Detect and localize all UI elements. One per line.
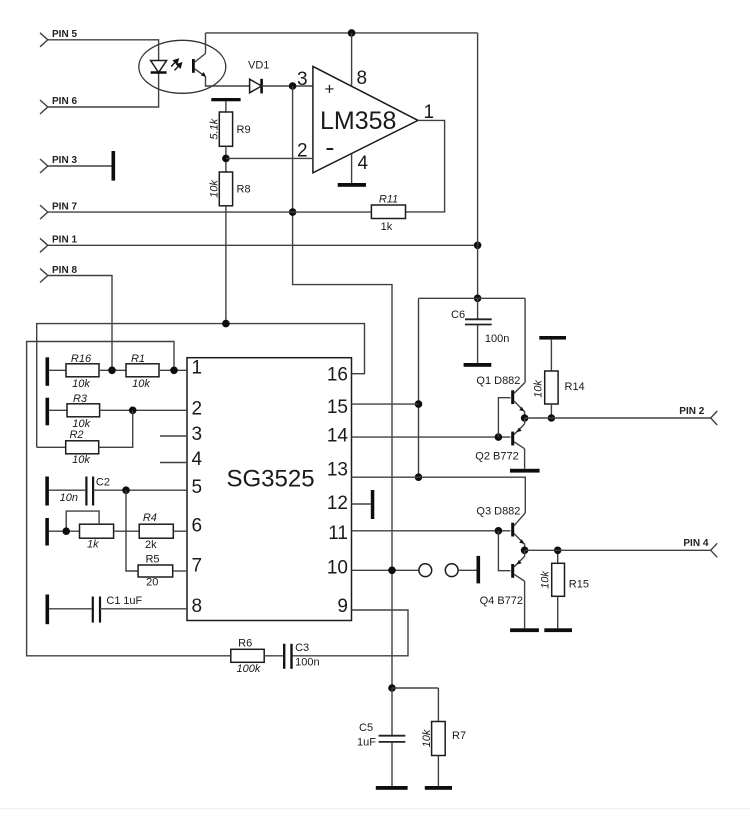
PIN 8 connector [40,265,77,283]
svg-text:1k: 1k [87,539,99,551]
terminal bar R3 [46,398,50,426]
phototransistor of optocoupler [192,54,206,78]
wire Q2 collector to ground [524,449,526,469]
svg-text:2: 2 [192,399,203,420]
wire PIN8 down to R16/R1 node [48,276,112,371]
resistor R14 [533,340,585,418]
node shutdown/C5/R7 [388,684,396,692]
wire supply vertical [477,33,479,298]
svg-text:1k: 1k [381,221,393,233]
node pot wiper [62,527,70,535]
wire PIN1 supply [48,244,478,246]
PIN 7 connector [40,201,77,219]
svg-text:R11: R11 [379,194,398,206]
wire R6 to C3 [264,655,284,657]
wire phototransistor emitter to VD1 [206,77,250,87]
LED of optocoupler [151,61,167,73]
transistor Q4 B772 [480,556,525,607]
svg-text:10k: 10k [209,180,221,198]
node R15/PIN4 [554,547,562,555]
ground Q4 [510,628,539,632]
svg-text:8: 8 [357,68,368,89]
capacitor C3 [284,642,319,669]
svg-text:R16: R16 [71,353,92,365]
wire base join up to Q1 base [498,398,510,437]
wire base join down to Q4 base [498,531,510,571]
resistor R15 [540,550,589,628]
wire PIN7 to R11 [48,211,372,213]
node R9/R8 to op-amp pin 2 [222,155,230,163]
node pin5/C2/R5 [122,486,130,494]
wire R9 to node R9/R8 [225,146,227,172]
PIN 2 connector [679,406,717,425]
ground C5 [376,786,408,790]
svg-text:4: 4 [358,153,369,174]
node base join [495,433,503,441]
resistor R1 [126,353,159,390]
wire vref rail (R8 bottom to pin16) [37,324,365,448]
svg-text:7: 7 [192,556,203,577]
svg-text:R14: R14 [565,381,585,393]
pin 15 wire [352,403,419,405]
op-amp U1 LM358 [297,66,434,174]
PIN 1 connector [40,235,77,253]
transistor Q3 D882 [476,506,525,545]
svg-text:C6: C6 [451,309,465,321]
wire node to R7 [392,687,438,689]
svg-text:10k: 10k [421,729,433,747]
svg-text:R4: R4 [143,512,157,524]
node top rail / op-amp pin 8 [348,29,356,37]
svg-text:3: 3 [192,424,203,445]
wire LED cathode to PIN6 [48,73,159,108]
pin 10 wire [352,569,419,571]
PIN 3 connector [40,155,77,173]
wire Q3 emitter to output node [523,543,524,550]
svg-text:SG3525: SG3525 [227,465,315,492]
jumper circle 2 [445,564,458,577]
node pin2/R3/R2 [129,407,137,415]
resistor R16 [49,353,99,390]
svg-text:R7: R7 [452,730,466,742]
ground Q2 [510,469,540,473]
PIN 4 connector [683,538,717,558]
svg-text:11: 11 [328,523,348,544]
wire R4 to pin 6 [173,530,187,532]
node base join 2 [495,527,503,535]
terminal bar C1 [46,595,50,625]
svg-text:PIN 8: PIN 8 [52,265,77,276]
wire Q2 emitter up to node [524,418,526,424]
resistor R7 [421,688,466,786]
svg-text:1uF: 1uF [357,737,376,749]
capacitor C2 [49,477,187,506]
terminal bar C2 [45,477,49,506]
capacitor C1 [49,595,187,623]
svg-text:R6: R6 [238,637,252,649]
svg-text:LM358: LM358 [320,107,396,135]
node Q1/Q2 emitters [521,414,529,422]
node PIN7 junction [289,208,297,216]
node Q3/Q4 emitters [521,547,529,555]
node pin3 junction [289,82,297,90]
svg-text:9: 9 [337,596,348,617]
capacitor C5 [357,688,405,786]
resistor R6 [231,637,264,675]
svg-text:C2: C2 [96,477,110,489]
svg-text:10k: 10k [540,571,552,589]
resistor R11 [371,194,405,234]
transistor Q2 B772 [475,424,524,463]
wire PIN 2 output [525,417,711,419]
wire circle2 to terminal [458,569,476,571]
PIN 6 connector [40,96,77,114]
svg-text:PIN 5: PIN 5 [52,29,77,40]
pin 4 stub [160,462,187,464]
bar above R14 [539,336,566,340]
svg-text:100n: 100n [295,657,319,669]
node VCC/pin15 [415,400,423,408]
ground C6 [464,363,492,367]
terminal bar pot [45,518,49,546]
wire VD1 to op-amp pin 3 [262,85,313,87]
svg-text:12: 12 [327,493,348,514]
resistor R3 [49,393,100,430]
svg-text:4: 4 [192,449,203,470]
wire R1 to pin 1 [159,369,187,371]
wire R16-R1 [99,369,126,371]
bar above R9 [211,98,240,101]
svg-text:13: 13 [327,460,348,481]
svg-text:Q3 D882: Q3 D882 [476,506,520,518]
terminal bar pin12 [371,490,375,519]
svg-text:10k: 10k [533,380,545,398]
svg-text:R2: R2 [69,429,83,441]
pin 11 wire to Q3/Q4 bases [352,530,511,532]
node R14/PIN2 [548,414,556,422]
wire C2 node down to R5 [126,490,138,571]
svg-text:C5: C5 [359,722,373,734]
svg-text:15: 15 [327,397,348,418]
svg-text:PIN 3: PIN 3 [52,155,77,166]
wire node A down to PIN7 and corner to right [293,86,392,688]
node VCC/pin13 [415,473,423,481]
svg-text:8: 8 [192,596,203,617]
wire PIN3 to terminal [48,165,112,167]
svg-text:20: 20 [146,576,158,588]
svg-text:3: 3 [297,69,308,90]
svg-text:R15: R15 [569,579,589,591]
svg-text:100k: 100k [236,663,260,675]
capacitor C6 [451,298,509,363]
svg-text:5: 5 [192,477,203,498]
wire bar to R9 [225,101,227,112]
svg-text:PIN 6: PIN 6 [52,96,77,107]
wire node to op-amp pin2 [226,157,313,159]
wire op-amp pin 8 [351,33,353,86]
svg-text:5.1k: 5.1k [209,118,221,139]
wire R8 down to vref rail [225,206,227,324]
svg-text:14: 14 [327,425,349,446]
potentiometer 1k [49,511,114,550]
wire top supply rail [206,32,478,34]
svg-text:VD1: VD1 [248,60,269,72]
terminal bar PIN3 [112,151,116,181]
pin 14 wire to Q1/Q2 bases [352,436,511,438]
wire PIN5 to optocoupler LED anode [48,40,159,61]
svg-text:PIN 4: PIN 4 [683,538,708,549]
resistor R5 [138,553,173,588]
svg-text:PIN 7: PIN 7 [52,201,77,212]
node PIN1/supply [474,242,482,250]
svg-text:R5: R5 [145,553,159,565]
svg-text:R8: R8 [237,184,251,196]
svg-text:PIN 2: PIN 2 [679,406,704,417]
node PIN8/R16/R1 [108,367,116,375]
pin 9 wire [293,610,408,656]
svg-text:Q2 B772: Q2 B772 [475,451,518,463]
svg-text:1: 1 [424,102,435,123]
svg-text:10k: 10k [72,378,90,390]
resistor R4 [139,512,173,551]
wire op-amp pin1 to R11 [406,120,445,211]
terminal bar R16 [46,357,50,386]
wire feedback loop (pin1 node to bottom rail) [27,342,231,656]
IC U2 SG3525 [187,358,352,621]
svg-text:R3: R3 [73,393,88,405]
wire VCC vertical [418,298,420,477]
svg-text:R1: R1 [131,353,145,365]
svg-text:16: 16 [327,365,348,386]
svg-text:10k: 10k [72,454,90,466]
node supply split [474,295,482,303]
optocoupler U-opto ellipse [139,40,226,93]
ground R7 [425,786,452,790]
svg-text:1: 1 [192,358,203,379]
faint scan line [0,808,750,809]
jumper circle 1 [419,564,432,577]
svg-text:10: 10 [327,557,348,578]
svg-text:6: 6 [192,516,203,537]
wire R5 to pin 7 [173,570,187,572]
svg-text:C3: C3 [295,642,309,654]
wire Q4 collector to ground [524,581,526,628]
diode VD1 [248,60,269,94]
resistor R8 [209,172,251,206]
wire Q1 collector vertical [524,298,526,382]
svg-text:10k: 10k [132,378,150,390]
PIN 5 connector [40,29,77,47]
wire pot to R4 [114,530,140,532]
svg-text:Q1 D882: Q1 D882 [476,375,520,387]
wire op-amp pin 4 to ground [351,154,353,184]
node pin10/shutdown [388,567,396,575]
svg-text:10n: 10n [60,492,78,504]
svg-text:100n: 100n [485,333,509,345]
wire phototransistor collector to top rail [205,33,207,54]
wire PIN 4 output [525,549,711,551]
wire Q1 emitter to output node [523,411,524,419]
resistor R2 [37,410,133,466]
transistor Q1 D882 [476,375,525,412]
light arrows [171,59,181,70]
ground op-amp [338,183,366,187]
pin 3 stub [160,435,187,437]
wire supply to VCC rail and Q1 collector [419,297,526,299]
svg-text:2k: 2k [145,539,157,551]
ground R15 [544,628,572,632]
pin 12 wire [352,503,371,505]
wire Q4 emitter up to node [524,550,526,556]
node vref/R8 [222,320,230,328]
svg-text:+: + [325,80,335,99]
terminal bar pin10 [477,556,481,584]
svg-text:PIN 1: PIN 1 [52,235,77,246]
svg-text:C1 1uF: C1 1uF [106,595,142,607]
resistor R9 [209,112,251,146]
svg-text:R9: R9 [237,124,251,136]
pin 13 wire to Q3 collector [352,477,526,513]
node pin1/R1/loop [170,367,178,375]
svg-text:Q4 B772: Q4 B772 [480,595,523,607]
wire R3 to pin 2 [100,409,187,411]
